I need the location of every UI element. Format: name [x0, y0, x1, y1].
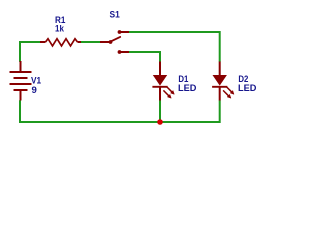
- LED D1 emission arrow 2: [163, 90, 171, 98]
- resistor R1 left lead: [40, 41, 46, 43]
- LED D2 emission arrow 1: [226, 87, 234, 95]
- wire: R1 right lead to S1 pole: [81, 41, 100, 43]
- switch S1 pole lead: [100, 41, 111, 43]
- wire: D1 column vertical drop: [159, 51, 161, 62]
- resistor R1 right lead: [78, 41, 82, 43]
- LED D1 triangle: [153, 75, 167, 86]
- switch S1 top contact dot: [118, 30, 122, 34]
- LED D2 cathode bar: [212, 86, 227, 88]
- switch S1 bottom contact stub: [120, 51, 130, 53]
- LED D1 anode lead: [159, 62, 161, 76]
- LED D2 emission arrow 2: [223, 90, 231, 98]
- wire: bottom rail horizontal: [19, 121, 220, 123]
- svg-text:1k: 1k: [55, 24, 64, 35]
- switch S1 pole junction dot: [109, 40, 113, 44]
- wire: S1 top throw to D2 column: [129, 31, 220, 33]
- wire: D1 cathode down to bottom rail: [159, 100, 161, 122]
- wire: D2 column vertical drop: [219, 31, 221, 62]
- svg-text:LED: LED: [238, 83, 256, 94]
- LED D1 emission arrow 1: [167, 87, 175, 95]
- LED D2 triangle: [213, 75, 227, 86]
- wire: top-left horizontal from battery column to R1: [19, 41, 40, 43]
- junction dot at D1/bottom rail: [157, 119, 163, 125]
- battery V1 plate 1 (long): [10, 71, 32, 73]
- svg-text:S1: S1: [110, 10, 121, 21]
- wire: left vertical from top corner down to V1 positive lead: [19, 41, 21, 62]
- battery V1 top lead: [20, 61, 22, 71]
- resistor R1 zigzag: [46, 39, 78, 46]
- svg-text:9: 9: [32, 85, 37, 96]
- wire: S1 bottom throw to D1 column: [129, 51, 160, 53]
- wire: battery negative lead down to bottom rail: [19, 100, 21, 123]
- switch S1 lever: [111, 37, 121, 42]
- svg-text:LED: LED: [178, 83, 196, 94]
- LED D2 cathode lead: [219, 87, 221, 101]
- battery V1 bottom lead: [20, 90, 22, 101]
- battery V1 plate 3 (long): [10, 83, 32, 85]
- battery V1 plate 2 (short): [14, 77, 28, 79]
- LED D1 cathode bar: [152, 86, 167, 88]
- wire: D2 cathode down to bottom rail: [219, 100, 221, 123]
- battery V1 plate 4 (short): [14, 89, 28, 91]
- switch S1 top contact stub: [120, 31, 130, 33]
- switch S1 bottom contact dot: [118, 50, 122, 54]
- LED D1 cathode lead: [159, 87, 161, 101]
- LED D2 anode lead: [219, 62, 221, 76]
